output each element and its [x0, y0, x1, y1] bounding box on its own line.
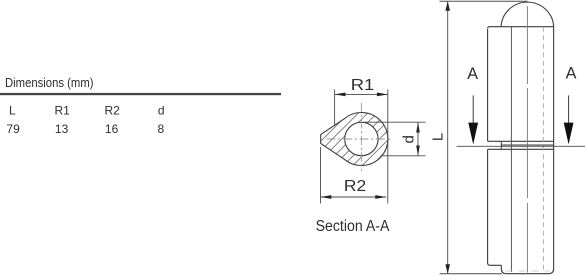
lower knuckle top edge: [488, 148, 554, 150]
svg-text:R1: R1: [55, 104, 71, 118]
svg-text:79: 79: [6, 122, 20, 136]
R1/R2 shared extension line right: [387, 90, 389, 204]
section horizontal centerline: [327, 138, 393, 140]
svg-text:A: A: [566, 65, 577, 83]
body top edge: [488, 27, 554, 29]
bottom cap faint line: [506, 270, 551, 272]
pin mid line in gap: [501, 144, 553, 146]
cut arrow left head: [468, 123, 478, 145]
lower knuckle left edge: [488, 149, 502, 265]
right edge: [553, 27, 555, 269]
R2 arrowhead right: [375, 195, 386, 199]
d dimension line: [417, 122, 419, 156]
svg-text:d: d: [158, 104, 165, 118]
R2 extension line left: [320, 147, 322, 204]
R1 dimension line: [335, 93, 388, 95]
R2 arrowhead left: [321, 195, 332, 199]
svg-text:Section A-A: Section A-A: [316, 218, 390, 235]
cut arrow right stem: [568, 95, 570, 123]
section bore circle d: [345, 122, 378, 155]
bottom pin outline: [501, 265, 553, 273]
cut arrow left stem: [472, 95, 474, 123]
pin centerline: [526, 6, 528, 273]
svg-text:L: L: [430, 133, 447, 141]
upper knuckle left edge: [487, 29, 489, 141]
inner solid line (weld flat edge): [510, 27, 512, 272]
svg-text:16: 16: [105, 122, 119, 136]
d arrowhead top: [416, 122, 420, 132]
R2 dimension line: [321, 196, 387, 198]
svg-text:A: A: [467, 65, 478, 83]
d arrowhead bottom: [416, 146, 420, 156]
L dimension bottom extension line: [440, 273, 502, 275]
R1 arrowhead right: [377, 93, 388, 97]
L dimension top extension line: [440, 0, 528, 2]
L arrowhead top: [445, 1, 450, 11]
svg-text:L: L: [9, 104, 16, 118]
section vertical centerline: [360, 103, 362, 171]
L dimension line: [447, 1, 449, 274]
section outer teardrop outline: [321, 113, 388, 166]
R1 arrowhead left: [335, 93, 346, 97]
table rule: [0, 93, 281, 95]
dome cap: [501, 2, 554, 27]
upper knuckle bottom edge: [488, 140, 554, 142]
svg-text:R2: R2: [344, 178, 366, 195]
cut arrow right head: [564, 123, 574, 145]
hatching of section ring: [287, 100, 437, 175]
svg-text:8: 8: [158, 122, 165, 136]
L arrowhead bottom: [445, 264, 450, 274]
section cut line A-A: [457, 145, 585, 147]
svg-text:Dimensions (mm): Dimensions (mm): [5, 76, 94, 90]
pin left edge in gap: [500, 141, 502, 149]
svg-text:R2: R2: [105, 104, 121, 118]
hidden bore line (dashed): [542, 27, 544, 272]
R1 dimension extension line left: [334, 90, 336, 126]
d extension line top: [363, 121, 426, 123]
svg-text:13: 13: [55, 122, 69, 136]
d extension line bottom: [381, 155, 426, 157]
svg-text:d: d: [400, 135, 417, 143]
svg-text:R1: R1: [351, 77, 375, 94]
